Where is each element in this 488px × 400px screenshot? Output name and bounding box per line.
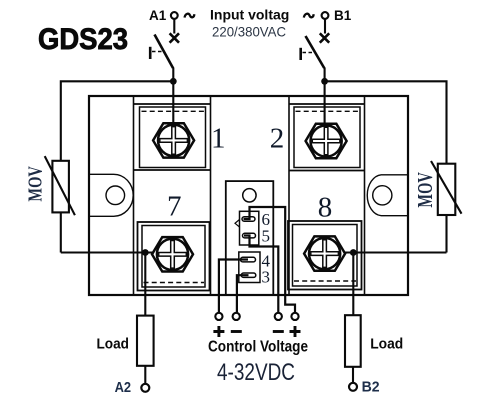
wire junction B1 to right MOV — [325, 81, 447, 164]
polarity notch — [235, 220, 240, 228]
X contact mark A1 — [170, 33, 179, 42]
tilde near A1 — [185, 14, 195, 18]
minus sign left — [231, 330, 242, 333]
relay body outline — [89, 96, 408, 295]
svg-text:Input voltag: Input voltag — [210, 7, 289, 23]
svg-text:Load: Load — [97, 337, 130, 353]
wire B1 down — [324, 19, 326, 34]
svg-text:MOV: MOV — [24, 166, 46, 202]
svg-text:GDS23: GDS23 — [38, 23, 128, 56]
wire right MOV to screw 8 — [345, 251, 447, 253]
body column line mid-left — [210, 96, 212, 295]
pin 4 slot — [241, 257, 256, 262]
wire pin 3 to minus left — [237, 275, 249, 313]
MOV varistor left — [45, 156, 75, 252]
right mounting tab — [367, 175, 408, 216]
terminal block 7 — [138, 222, 210, 291]
connector mounting circle — [243, 189, 256, 202]
X contact mark B1 — [320, 33, 329, 42]
screw 2 hex — [306, 124, 347, 158]
wire load A to A2 — [144, 366, 146, 385]
MOV varistor right — [431, 161, 462, 253]
screw 8 hex — [304, 236, 345, 270]
svg-text:8: 8 — [318, 192, 333, 224]
terminal block 2 — [289, 104, 365, 171]
control terminal plus-right circle — [291, 313, 298, 320]
pin 6 slot — [242, 217, 255, 222]
control connector housing — [226, 181, 273, 295]
wire B1 blade to terminal 2 — [324, 68, 326, 128]
wire pin 4 to plus left — [219, 260, 248, 314]
wire down to load B — [352, 253, 354, 316]
terminal B2 circle — [349, 383, 357, 391]
junction node load A — [142, 249, 149, 256]
svg-text:3: 3 — [262, 268, 271, 287]
control terminal minus-left circle — [233, 313, 240, 320]
wire load B to B2 — [352, 367, 354, 384]
svg-text:MOV: MOV — [413, 172, 436, 207]
svg-text:1: 1 — [211, 122, 226, 154]
svg-text:2: 2 — [270, 122, 285, 154]
dashed actuator link B1 — [303, 52, 316, 54]
junction node B1 — [321, 78, 328, 85]
wire pin 5 to minus right — [244, 236, 278, 314]
wire pin 6 to plus right — [244, 207, 296, 313]
body column line left — [133, 96, 135, 295]
body column line mid-right — [288, 96, 290, 295]
load resistor A — [137, 316, 154, 366]
terminal block 1 — [134, 104, 211, 170]
left mounting tab — [89, 174, 133, 216]
pin 3 slot — [241, 273, 256, 277]
plus sign left — [213, 326, 224, 337]
minus sign right — [273, 330, 284, 333]
load resistor B — [345, 315, 361, 367]
svg-text:220/380VAC: 220/380VAC — [212, 24, 286, 40]
switch blade B1 — [306, 36, 325, 68]
switch actuator tick B1 — [299, 48, 302, 60]
terminal A2 circle — [141, 384, 149, 392]
junction node A1 — [170, 78, 177, 85]
svg-text:A1: A1 — [149, 8, 167, 23]
switch blade A1 — [155, 35, 174, 69]
svg-text:Control Voltage: Control Voltage — [208, 339, 308, 356]
terminal block 8 — [288, 221, 362, 290]
screw 7 hex — [152, 237, 193, 271]
junction node load B — [350, 249, 357, 256]
svg-text:5: 5 — [262, 227, 271, 246]
pin 5 slot — [243, 233, 256, 238]
svg-text:Load: Load — [370, 337, 403, 353]
svg-text:B2: B2 — [362, 380, 380, 396]
wire down to load A — [144, 253, 146, 316]
control terminal plus-left circle — [215, 313, 222, 320]
wire left MOV to screw 7 — [61, 251, 153, 253]
wire A1 down — [173, 19, 175, 34]
svg-text:4-32VDC: 4-32VDC — [217, 359, 295, 386]
dashed actuator link A1 — [152, 51, 165, 53]
upper pin block — [240, 211, 259, 245]
wire A1 blade to terminal 1 — [172, 68, 174, 128]
body column line right — [364, 96, 366, 295]
svg-text:A2: A2 — [115, 380, 132, 396]
terminal B1 circle — [322, 12, 329, 19]
left mounting hole — [106, 186, 125, 205]
terminal A1 circle — [171, 12, 178, 19]
svg-text:B1: B1 — [334, 8, 352, 23]
lower pin block — [239, 252, 260, 283]
plus sign right — [290, 326, 301, 337]
control terminal minus-right circle — [275, 313, 282, 320]
switch actuator tick A1 — [149, 47, 152, 59]
screw 1 hex — [153, 123, 194, 157]
tilde near B1 — [304, 14, 314, 18]
right mounting hole — [373, 186, 392, 205]
wire junction A1 to left MOV — [61, 81, 174, 161]
svg-text:7: 7 — [167, 191, 182, 223]
